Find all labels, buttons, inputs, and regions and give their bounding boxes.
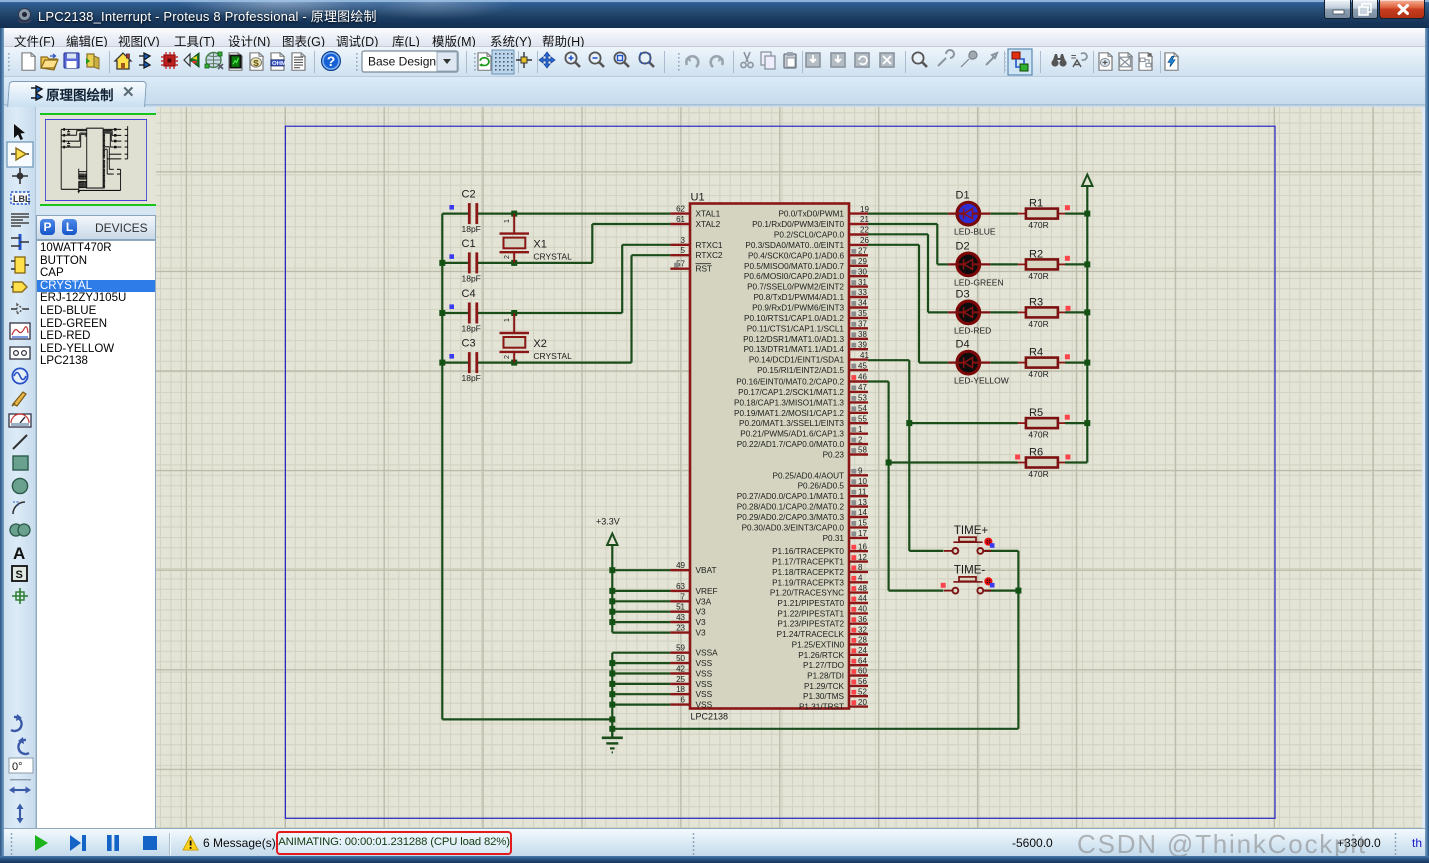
pin 40 P1.22/PIPESTAT1 (right) — [849, 612, 868, 614]
svg-text:P0.26/AD0.5: P0.26/AD0.5 — [798, 482, 845, 491]
svg-text:D2: D2 — [956, 240, 970, 252]
junction (612,694) — [609, 691, 615, 697]
red indicator — [851, 648, 856, 653]
pin 12 P1.17/TRACEPKT1 (right) — [849, 560, 868, 562]
svg-text:S: S — [16, 569, 23, 581]
svg-text:VSS: VSS — [696, 700, 713, 710]
wire button rail — [1017, 551, 1019, 729]
red indicator — [851, 680, 856, 685]
svg-text:P0.3/SDA0/MAT0..0/EINT1: P0.3/SDA0/MAT0..0/EINT1 — [745, 241, 844, 250]
pin 39 P0.13/DTR1/MAT1.1/AD1.4 (right) — [849, 348, 868, 350]
pin 43 V3 (left) — [670, 621, 690, 623]
red indicator — [1015, 455, 1020, 460]
svg-text:=: = — [1071, 52, 1076, 62]
svg-text:CRYSTAL: CRYSTAL — [533, 351, 572, 361]
pin 1 P0.21/PWM5/AD1.6/CAP1.3 (right) — [849, 433, 868, 435]
gray indicator — [851, 438, 856, 443]
junction (1087,423) — [1084, 420, 1090, 426]
svg-text:5: 5 — [681, 246, 686, 255]
pin 54 P0.19/MAT1.2/MOSI1/CAP1.2 (right) — [849, 412, 868, 414]
svg-text:R5: R5 — [1029, 407, 1043, 419]
svg-text:P0.0/TxD0/PWM1: P0.0/TxD0/PWM1 — [778, 210, 844, 219]
gray indicator — [851, 479, 856, 484]
svg-text:P0.21/PWM5/AD1.6/CAP1.3: P0.21/PWM5/AD1.6/CAP1.3 — [740, 430, 844, 439]
pin 24 P1.26/RTCK (right) — [849, 654, 868, 656]
gray indicator — [851, 448, 856, 453]
wire C4-X2 — [477, 312, 622, 314]
junction (612,570) — [609, 567, 615, 573]
svg-text:P0.28/AD0.1/CAP0.2/MAT0.2: P0.28/AD0.1/CAP0.2/MAT0.2 — [737, 503, 845, 512]
pin 14 P0.29/AD0.2/CAP0.3/MAT0.3 (right) — [849, 516, 868, 518]
svg-text:470R: 470R — [1028, 271, 1048, 281]
pin 63 VREF (left) — [670, 590, 690, 592]
svg-text:P1.29/TCK: P1.29/TCK — [804, 682, 845, 691]
red indicator — [851, 617, 856, 622]
red indicator — [851, 576, 856, 581]
svg-text:41: 41 — [860, 351, 869, 360]
wire TIME- right — [985, 589, 1019, 591]
gray indicator — [851, 312, 856, 317]
junction (612,663) — [609, 660, 615, 666]
wire P0.3 vertical — [918, 245, 920, 363]
wire D2-R2 — [990, 263, 1018, 265]
wire power pin — [612, 590, 670, 592]
svg-text:P1.19/TRACEPKT3: P1.19/TRACEPKT3 — [772, 578, 844, 587]
svg-text:54: 54 — [858, 404, 867, 413]
svg-text:24: 24 — [858, 646, 867, 655]
gray indicator — [851, 521, 856, 526]
junction (1087,214) — [1084, 211, 1090, 217]
svg-text:P0.31: P0.31 — [823, 534, 845, 543]
junction (442,263) — [439, 260, 445, 266]
svg-text:2: 2 — [504, 255, 511, 259]
junction (612,729) — [609, 726, 615, 732]
pin 9 P0.25/AD0.4/AOUT (right) — [849, 474, 868, 476]
svg-text:P0.2/SCL0/CAP0.0: P0.2/SCL0/CAP0.0 — [774, 231, 845, 240]
junction (442,313) — [439, 310, 445, 316]
svg-text:P0.22/AD1.7/CAP0.0/MAT0.0: P0.22/AD1.7/CAP0.0/MAT0.0 — [737, 440, 845, 449]
wire XTAL2 — [592, 223, 670, 225]
wire C3-X2 — [477, 362, 632, 364]
wire vss pin — [612, 652, 670, 654]
actuator marker TIME- — [985, 578, 991, 584]
svg-text:P0.9/RxD1/PWM6/EINT3: P0.9/RxD1/PWM6/EINT3 — [752, 304, 844, 313]
junction (612,705) — [609, 702, 615, 708]
pin 30 P0.6/MOSI0/CAP0.2/AD1.0 (right) — [849, 275, 868, 277]
wire R6 row — [889, 461, 1018, 463]
svg-text:35: 35 — [858, 309, 867, 318]
play button — [32, 834, 50, 852]
capacitor C4 — [468, 303, 471, 324]
junction (612,601) — [609, 598, 615, 604]
pin 8 P1.18/TRACEPKT2 (right) — [849, 571, 868, 573]
svg-text:8: 8 — [858, 563, 863, 572]
svg-text:23: 23 — [676, 624, 685, 633]
svg-text:C1: C1 — [462, 238, 476, 250]
gray indicator — [851, 511, 856, 516]
svg-text:D4: D4 — [956, 339, 970, 351]
capacitor C3 — [468, 352, 471, 373]
wire power pin — [612, 631, 670, 633]
svg-text:VSSA: VSSA — [696, 648, 719, 658]
pin 52 P1.30/TMS (right) — [849, 695, 868, 697]
svg-text:59: 59 — [676, 644, 685, 653]
pin 19 P0.0/TxD0/PWM1 (right) — [849, 212, 868, 214]
svg-text:P1.18/TRACEPKT2: P1.18/TRACEPKT2 — [772, 568, 844, 577]
svg-text:P1.27/TDO: P1.27/TDO — [803, 661, 844, 670]
svg-text:P0.27/AD0.0/CAP0.1/MAT0.1: P0.27/AD0.0/CAP0.1/MAT0.1 — [737, 492, 845, 501]
pin 15 P0.30/AD0.3/EINT3/CAP0.0 (right) — [849, 526, 868, 528]
pin 34 P0.9/RxD1/PWM6/EINT3 (right) — [849, 306, 868, 308]
pin 3 RTXC1 (left) — [670, 244, 690, 246]
minimap page — [45, 119, 147, 201]
gray indicator — [851, 259, 856, 264]
blue indicator C1 — [449, 254, 454, 259]
pin 31 P0.7/SSEL0/PWM2/EINT2 (right) — [849, 285, 868, 287]
wire P0.14 vertical — [908, 360, 910, 551]
svg-text:2: 2 — [858, 435, 863, 444]
svg-text:R2: R2 — [1029, 248, 1043, 260]
pin 21 P0.1/RxD0/PWM3/EINT0 (right) — [849, 223, 868, 225]
wire P0.2 vertical — [927, 234, 929, 312]
wire P0.14 — [868, 359, 909, 361]
wire R4-rail — [1065, 362, 1087, 364]
svg-text:1: 1 — [858, 425, 863, 434]
minimize button — [1324, 0, 1351, 19]
svg-text:18pF: 18pF — [462, 224, 481, 234]
svg-text:P0.29/AD0.2/CAP0.3/MAT0.3: P0.29/AD0.2/CAP0.3/MAT0.3 — [737, 513, 845, 522]
gray indicator — [851, 322, 856, 327]
svg-text:P0.16/EINT0/MAT0.2/CAP0.2: P0.16/EINT0/MAT0.2/CAP0.2 — [736, 378, 844, 387]
power +3.3V symbol (left) — [607, 534, 617, 546]
gray indicator — [851, 332, 856, 337]
LED D4 (LED-YELLOW) — [957, 351, 980, 374]
svg-text:P1.20/TRACESYNC: P1.20/TRACESYNC — [770, 589, 844, 598]
svg-text:LED-YELLOW: LED-YELLOW — [954, 376, 1009, 386]
gray indicator — [851, 280, 856, 285]
svg-text:46: 46 — [858, 373, 867, 382]
wire R6-rail — [1065, 461, 1087, 463]
junction (514,363) — [511, 360, 517, 366]
wire D1-R1 — [990, 213, 1018, 215]
P button — [40, 219, 55, 235]
svg-text:C4: C4 — [462, 288, 476, 300]
pin 6 VSS (left) — [670, 703, 690, 705]
capacitor C2 — [468, 203, 471, 224]
svg-text:VSS: VSS — [696, 679, 713, 689]
svg-text:18pF: 18pF — [462, 373, 481, 383]
red indicator — [851, 545, 856, 550]
pin 22 P0.2/SCL0/CAP0.0 (right) — [849, 233, 868, 235]
svg-text:P0.19/MAT1.2/MOSI1/CAP1.2: P0.19/MAT1.2/MOSI1/CAP1.2 — [734, 409, 844, 418]
svg-text:D3: D3 — [956, 288, 970, 300]
close button — [1379, 0, 1425, 19]
svg-text:17: 17 — [858, 529, 867, 538]
svg-text:P1.28/TDI: P1.28/TDI — [807, 672, 844, 681]
svg-text:39: 39 — [858, 340, 867, 349]
svg-text:27: 27 — [858, 247, 867, 256]
wire C4 left — [442, 312, 469, 314]
svg-text:56: 56 — [858, 677, 867, 686]
svg-text:26: 26 — [860, 236, 869, 245]
LED D3 (LED-RED) — [957, 301, 980, 324]
pin 27 P0.4/SCK0/CAP0.1/AD0.6 (right) — [849, 254, 868, 256]
svg-text:R6: R6 — [1029, 447, 1043, 459]
svg-text:60: 60 — [858, 667, 867, 676]
red indicator — [851, 659, 856, 664]
wire R1-rail — [1065, 213, 1087, 215]
red indicator — [851, 700, 856, 705]
pin 48 P1.20/TRACESYNC (right) — [849, 591, 868, 593]
svg-text:36: 36 — [858, 615, 867, 624]
L button — [62, 219, 77, 235]
svg-text:11: 11 — [858, 487, 867, 496]
pin 53 P0.18/CAP1.3/MISO1/MAT1.3 (right) — [849, 401, 868, 403]
pin 29 P0.5/MISO0/MAT0.1/AD0.7 (right) — [849, 265, 868, 267]
svg-text:9: 9 — [858, 467, 863, 476]
red indicator — [1065, 205, 1070, 210]
wire P0.3 — [868, 244, 919, 246]
left tool strip — [4, 107, 36, 828]
svg-text:P0.4/SCK0/CAP0.1/AD0.6: P0.4/SCK0/CAP0.1/AD0.6 — [748, 251, 844, 260]
gray indicator — [851, 301, 856, 306]
wire TIME+ left — [909, 550, 943, 552]
svg-text:V3: V3 — [696, 628, 707, 638]
pin 5 RTXC2 (left) — [670, 254, 690, 256]
left panel: overview minimap + device list — [36, 107, 156, 828]
wire P0.16 — [868, 380, 889, 382]
junction (612,622) — [609, 619, 615, 625]
svg-text:3: 3 — [681, 236, 686, 245]
push button TIME+ — [944, 550, 953, 552]
wire bottom rail — [612, 728, 1018, 730]
svg-text:XTAL2: XTAL2 — [696, 219, 721, 229]
svg-text:D1: D1 — [956, 190, 970, 202]
junction (612,674) — [609, 671, 615, 677]
wire power pin — [612, 611, 670, 613]
svg-text:7: 7 — [681, 592, 686, 601]
svg-text:52: 52 — [858, 687, 867, 696]
svg-text:P0.30/AD0.3/EINT3/CAP0.0: P0.30/AD0.3/EINT3/CAP0.0 — [742, 523, 845, 532]
svg-text:43: 43 — [676, 613, 685, 622]
svg-text:CRYSTAL: CRYSTAL — [533, 252, 572, 262]
pin 35 P0.10/RTS1/CAP1.0/AD1.2 (right) — [849, 317, 868, 319]
gray indicator — [851, 396, 856, 401]
wire R3-rail — [1065, 311, 1087, 313]
svg-text:37: 37 — [858, 320, 867, 329]
svg-text:10: 10 — [858, 477, 867, 486]
wire to D4 — [919, 362, 948, 364]
red indicator — [851, 586, 856, 591]
schematic canvas — [156, 107, 1422, 828]
svg-text:470R: 470R — [1028, 220, 1048, 230]
svg-text:+3.3V: +3.3V — [596, 517, 620, 527]
wire RTXC2 — [632, 254, 671, 256]
svg-text:A: A — [13, 544, 25, 563]
svg-text:XTAL1: XTAL1 — [696, 209, 721, 219]
svg-text:P0.6/MOSI0/CAP0.2/AD1.0: P0.6/MOSI0/CAP0.2/AD1.0 — [744, 272, 845, 281]
pin 62 XTAL1 (left) — [670, 212, 690, 214]
gray indicator — [851, 500, 856, 505]
svg-text:TIME+: TIME+ — [954, 525, 988, 537]
svg-text:61: 61 — [676, 215, 685, 224]
svg-text:48: 48 — [858, 584, 867, 593]
blue indicator C2 — [449, 205, 454, 210]
wire D4-R4 — [990, 362, 1018, 364]
pin 41 P0.14/DCD1/EINT1/SDA1 (right) — [849, 358, 868, 360]
svg-text:25: 25 — [676, 675, 685, 684]
step button — [68, 834, 88, 852]
pin 45 P0.15/RI1/EINT2/AD1.5 (right) — [849, 369, 868, 371]
capacitor C1 — [468, 252, 471, 273]
svg-text:63: 63 — [676, 582, 685, 591]
pin 18 VSS (left) — [670, 693, 690, 695]
svg-text:64: 64 — [858, 656, 867, 665]
wire RTXC2 vertical — [630, 255, 632, 362]
junction (612,591) — [609, 588, 615, 594]
pin 11 P0.27/AD0.0/CAP0.1/MAT0.1 (right) — [849, 495, 868, 497]
svg-text:P0.17/CAP1.2/SCK1/MAT1.2: P0.17/CAP1.2/SCK1/MAT1.2 — [738, 388, 844, 397]
svg-text:P0.8/TxD1/PWM4/AD1.1: P0.8/TxD1/PWM4/AD1.1 — [753, 293, 844, 302]
document tab bar — [0, 77, 1429, 107]
svg-text:TIME-: TIME- — [954, 565, 985, 577]
gray indicator — [851, 343, 856, 348]
pin 55 P0.20/MAT1.3/SSEL1/EINT3 (right) — [849, 422, 868, 424]
gray indicator — [851, 386, 856, 391]
blue indicator TIME+ — [990, 543, 995, 548]
wire R5-rail — [1065, 422, 1087, 424]
pin 13 P0.28/AD0.1/CAP0.2/MAT0.2 (right) — [849, 505, 868, 507]
red indicator — [1065, 256, 1070, 261]
wire P0.16 vertical — [887, 382, 889, 591]
svg-text:P0.7/SSEL0/PWM2/EINT2: P0.7/SSEL0/PWM2/EINT2 — [747, 283, 844, 292]
junction (1087,312) — [1084, 309, 1090, 315]
junction (612,719) — [609, 716, 615, 722]
svg-text:P0.11/CTS1/CAP1.1/SCL1: P0.11/CTS1/CAP1.1/SCL1 — [747, 324, 845, 333]
pin 7 V3A (left) — [670, 600, 690, 602]
svg-text:LPC2138: LPC2138 — [691, 712, 729, 722]
svg-text:OHM: OHM — [272, 61, 286, 67]
pin 57 RST (left) — [670, 268, 690, 270]
wire vss pin — [612, 672, 670, 674]
svg-text:P0.23: P0.23 — [823, 451, 845, 460]
svg-text:P1.25/EXTIN0: P1.25/EXTIN0 — [792, 640, 845, 649]
pin 38 P0.12/DSR1/MAT1.0/AD1.3 (right) — [849, 338, 868, 340]
svg-text:470R: 470R — [1028, 319, 1048, 329]
pin 28 P1.25/EXTIN0 (right) — [849, 643, 868, 645]
wire TIME- left — [889, 589, 944, 591]
animating readout — [276, 831, 512, 855]
svg-text:RTXC1: RTXC1 — [696, 240, 723, 250]
svg-text:X2: X2 — [533, 338, 546, 350]
main toolbar — [0, 47, 1429, 77]
svg-text:P0.20/MAT1.3/SSEL1/EINT3: P0.20/MAT1.3/SSEL1/EINT3 — [739, 419, 844, 428]
svg-text:30: 30 — [858, 267, 867, 276]
wire C3 left — [442, 362, 469, 364]
svg-text:P1.16/TRACEPKT0: P1.16/TRACEPKT0 — [772, 547, 844, 556]
pin 47 P0.17/CAP1.2/SCK1/MAT1.2 (right) — [849, 391, 868, 393]
svg-text:VREF: VREF — [696, 586, 718, 596]
ground symbol — [611, 729, 613, 738]
junction (514,263) — [511, 260, 517, 266]
pin 10 P0.26/AD0.5 (right) — [849, 485, 868, 487]
svg-text:P0.12/DSR1/MAT1.0/AD1.3: P0.12/DSR1/MAT1.0/AD1.3 — [743, 335, 844, 344]
schematic grid background — [156, 107, 1422, 828]
red indicator — [851, 375, 856, 380]
red indicator — [1065, 415, 1070, 420]
wire XTAL2 vertical — [591, 224, 593, 263]
push button TIME- — [944, 590, 953, 592]
MCU chip U1 LPC2138 body — [690, 204, 849, 709]
junction (612,612) — [609, 609, 615, 615]
svg-text:RTXC2: RTXC2 — [696, 250, 723, 260]
svg-text:0°: 0° — [12, 761, 23, 773]
gray indicator — [851, 532, 856, 537]
resistor R1 (470R) — [1018, 213, 1026, 215]
svg-text:P0.18/CAP1.3/MISO1/MAT1.3: P0.18/CAP1.3/MISO1/MAT1.3 — [734, 398, 844, 407]
svg-text:20: 20 — [858, 698, 867, 707]
svg-text:45: 45 — [858, 361, 867, 370]
wire R2-rail — [1065, 263, 1087, 265]
svg-text:R1: R1 — [1029, 198, 1043, 210]
svg-text:470R: 470R — [1028, 369, 1048, 379]
svg-text:VSS: VSS — [696, 669, 713, 679]
svg-text:40: 40 — [858, 605, 867, 614]
wire C1 left — [442, 262, 469, 264]
svg-text:62: 62 — [676, 205, 685, 214]
svg-text:P1.22/PIPESTAT1: P1.22/PIPESTAT1 — [777, 609, 844, 618]
pause button — [105, 834, 121, 852]
pin 59 VSSA (left) — [670, 652, 690, 654]
svg-text:29: 29 — [858, 257, 867, 266]
wire P0.1 — [868, 223, 937, 225]
svg-text:LBL: LBL — [13, 194, 31, 204]
window title bar — [0, 0, 1429, 28]
svg-text:P1.24/TRACECLK: P1.24/TRACECLK — [777, 630, 845, 639]
restore button — [1352, 0, 1378, 19]
svg-text:38: 38 — [858, 330, 867, 339]
junction (889,462) — [886, 460, 892, 466]
sheet border — [285, 126, 1275, 818]
red indicator — [1066, 306, 1071, 311]
resistor R5 (470R) — [1018, 422, 1026, 424]
gray indicator — [851, 364, 856, 369]
junction (612,684) — [609, 681, 615, 687]
svg-text:P0.25/AD0.4/AOUT: P0.25/AD0.4/AOUT — [773, 471, 844, 480]
power +3.3V symbol (top right rail) — [1082, 175, 1092, 187]
junction (442,363) — [439, 360, 445, 366]
svg-text:18pF: 18pF — [462, 324, 481, 334]
wire VSS bus — [611, 653, 613, 738]
junction (514,214) — [511, 211, 517, 217]
junction (1018,591) — [1015, 588, 1021, 594]
svg-text:16: 16 — [858, 542, 867, 551]
svg-text:P1.31/TRST: P1.31/TRST — [799, 703, 844, 712]
svg-text:$: $ — [253, 58, 259, 67]
pin 33 P0.8/TxD1/PWM4/AD1.1 (right) — [849, 296, 868, 298]
svg-text:C3: C3 — [462, 338, 476, 350]
gray indicator — [851, 490, 856, 495]
junction (1087,363) — [1084, 360, 1090, 366]
svg-text:50: 50 — [676, 654, 685, 663]
red indicator — [851, 669, 856, 674]
svg-text:VSS: VSS — [696, 658, 713, 668]
blue indicator TIME- — [990, 583, 995, 588]
resistor R2 (470R) — [1018, 263, 1026, 265]
svg-text:49: 49 — [676, 561, 685, 570]
pin 17 P0.31 (right) — [849, 537, 868, 539]
svg-text:V3A: V3A — [696, 596, 712, 606]
